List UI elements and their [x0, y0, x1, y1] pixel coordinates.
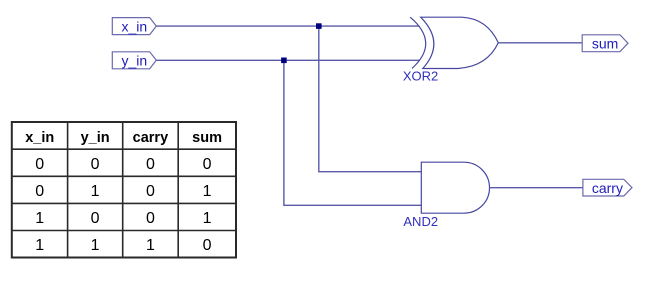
svg-text:AND2: AND2	[403, 214, 438, 229]
wire XOR2 output to sum label	[498, 42, 582, 44]
svg-text:sum: sum	[192, 130, 222, 146]
output label carry	[583, 179, 632, 196]
svg-text:carry: carry	[592, 180, 623, 196]
svg-text:1: 1	[35, 210, 44, 227]
and gate AND2	[403, 162, 489, 229]
svg-text:x_in: x_in	[121, 18, 147, 34]
svg-text:0: 0	[146, 156, 155, 173]
svg-text:0: 0	[146, 210, 155, 227]
wire AND2 output to carry label	[490, 187, 583, 189]
node junction on x_in wire	[316, 23, 322, 29]
svg-text:0: 0	[203, 156, 212, 173]
svg-text:0: 0	[203, 237, 212, 254]
svg-text:1: 1	[203, 210, 212, 227]
svg-text:1: 1	[35, 237, 44, 254]
output label sum	[582, 35, 628, 52]
svg-text:1: 1	[146, 237, 155, 254]
svg-text:0: 0	[91, 210, 100, 227]
svg-text:0: 0	[146, 183, 155, 200]
svg-text:0: 0	[35, 183, 44, 200]
svg-text:1: 1	[91, 183, 100, 200]
svg-text:y_in: y_in	[121, 53, 147, 69]
wire from x_in junction down and right to AND2 upper input	[319, 26, 422, 172]
svg-text:sum: sum	[592, 36, 618, 52]
wire x_in to XOR2 upper input	[156, 25, 419, 27]
svg-text:0: 0	[91, 156, 100, 173]
truth table	[12, 122, 236, 258]
input label x_in	[112, 18, 156, 35]
node junction on y_in wire	[281, 58, 287, 64]
svg-text:1: 1	[91, 237, 100, 254]
svg-text:1: 1	[203, 183, 212, 200]
svg-text:carry: carry	[133, 130, 168, 146]
svg-text:XOR2: XOR2	[403, 68, 438, 83]
input label y_in	[112, 52, 156, 69]
svg-text:x_in: x_in	[25, 130, 54, 146]
svg-text:y_in: y_in	[81, 130, 110, 146]
xor gate XOR2	[403, 17, 498, 83]
wire y_in to XOR2 lower input	[156, 59, 420, 61]
wire from y_in junction down and right to AND2 lower input	[284, 60, 421, 205]
svg-text:0: 0	[35, 156, 44, 173]
